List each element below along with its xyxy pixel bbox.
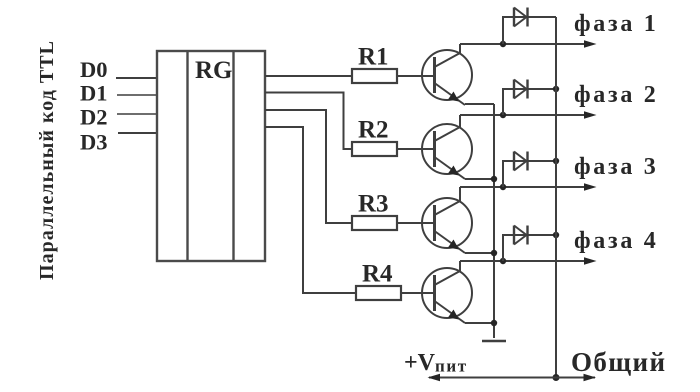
wire D3 input xyxy=(118,132,158,134)
arrowhead phase 3 xyxy=(584,183,597,190)
arrowhead phase 4 xyxy=(584,257,597,264)
wire R3 to Q3 base xyxy=(397,222,435,224)
wire R4 to Q4 base xyxy=(401,292,435,294)
emitter bus end bar xyxy=(482,340,506,343)
junction Q3 emitter xyxy=(491,250,497,256)
arrowhead phase 2 xyxy=(584,111,597,118)
resistor R1 xyxy=(352,69,397,83)
wire Q2 emitter xyxy=(465,178,494,180)
wire VD4 loop xyxy=(503,235,556,261)
svg-text:R4: R4 xyxy=(362,261,393,288)
diode VD2 xyxy=(514,80,528,99)
wire Q3 collector xyxy=(459,187,461,201)
wire Q1 collector xyxy=(459,44,461,53)
resistor R2 xyxy=(352,142,397,156)
svg-text:RG: RG xyxy=(195,57,233,84)
wire RG output 4 xyxy=(265,127,356,293)
junction VD4 cathode to bus xyxy=(553,232,559,238)
wire VD2 loop xyxy=(503,89,556,115)
svg-text:Параллельный код TTL: Параллельный код TTL xyxy=(36,41,58,280)
wire emitter bus xyxy=(493,104,495,338)
junction node phase 3 / diode VD3 anode xyxy=(500,184,506,190)
wire R2 to Q2 base xyxy=(397,148,435,150)
wire Q4 emitter xyxy=(465,322,494,324)
junction VD3 cathode to bus xyxy=(553,158,559,164)
wire RG output 1 xyxy=(265,75,352,77)
svg-text:Общий: Общий xyxy=(571,347,666,377)
arrowhead +Vпит (left) xyxy=(428,374,441,381)
svg-text:R3: R3 xyxy=(358,191,389,218)
wire Q4 collector xyxy=(459,261,461,271)
junction Q2 emitter xyxy=(491,176,497,182)
wire phase 1 line xyxy=(460,43,585,45)
diode VD4 xyxy=(514,226,528,245)
wire RG output 3 xyxy=(265,110,352,223)
diode VD1 xyxy=(514,8,528,27)
svg-text:D1: D1 xyxy=(80,81,108,106)
transistor Q3 xyxy=(422,198,472,253)
transistor Q1 xyxy=(422,50,472,105)
wire RG output 2 xyxy=(265,93,352,150)
svg-text:D3: D3 xyxy=(80,130,108,155)
svg-text:R1: R1 xyxy=(358,44,389,71)
transistor Q4 xyxy=(422,268,472,323)
arrowhead Общий (right) xyxy=(584,374,597,381)
junction common bus to bottom rail xyxy=(553,374,560,381)
transistor Q2 xyxy=(422,124,472,179)
svg-text:+Vпит: +Vпит xyxy=(404,350,468,376)
svg-text:фаза 4: фаза 4 xyxy=(574,228,658,254)
wire Q2 collector xyxy=(459,115,461,127)
wire common bus vertical xyxy=(555,17,557,378)
junction node phase 4 / diode VD4 anode xyxy=(500,258,506,264)
wire phase 2 line xyxy=(460,114,585,116)
wire Q3 emitter xyxy=(465,252,494,254)
svg-text:фаза 1: фаза 1 xyxy=(574,11,658,37)
junction node phase 1 / diode VD1 anode xyxy=(500,41,506,47)
svg-text:D2: D2 xyxy=(80,105,108,130)
wire phase 3 line xyxy=(460,186,585,188)
wire D1 input xyxy=(117,94,158,96)
register RG box xyxy=(157,51,265,261)
svg-text:фаза 3: фаза 3 xyxy=(574,154,658,180)
junction VD2 cathode to bus xyxy=(553,86,559,92)
svg-text:D0: D0 xyxy=(80,57,108,82)
wire R1 to Q1 base xyxy=(397,75,435,77)
wire bottom rail xyxy=(429,377,595,379)
wire D0 input xyxy=(116,77,158,79)
svg-text:R2: R2 xyxy=(358,117,389,144)
junction Q4 emitter xyxy=(491,320,497,326)
wire VD3 loop xyxy=(503,161,556,187)
wire Q1 emitter xyxy=(465,103,494,105)
wire phase 4 line xyxy=(460,260,585,262)
svg-text:фаза 2: фаза 2 xyxy=(574,82,658,108)
resistor R3 xyxy=(352,216,397,230)
wire D2 input xyxy=(117,113,158,115)
arrowhead phase 1 xyxy=(584,40,597,47)
junction node phase 2 / diode VD2 anode xyxy=(500,112,506,118)
diode VD3 xyxy=(514,152,528,171)
resistor R4 xyxy=(356,286,401,300)
wire VD1 loop xyxy=(503,17,556,44)
